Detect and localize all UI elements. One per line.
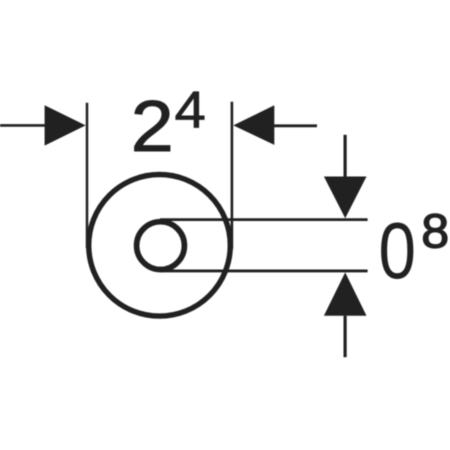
svg-text:4: 4	[175, 82, 206, 139]
svg-text:8: 8	[421, 204, 449, 258]
extension line bottom (diameter 0.8 dim)	[160, 269, 368, 272]
svg-text:0: 0	[379, 206, 416, 296]
dimension line left segment (24 dim)	[0, 124, 48, 127]
svg-text:2: 2	[131, 85, 174, 166]
arrowhead left pointing right (24 dim)	[45, 105, 86, 145]
outer circle (part outline)	[89, 175, 231, 317]
extension line top (diameter 0.8 dim)	[160, 218, 368, 221]
arrowhead bottom pointing up (0.8 dim)	[324, 272, 367, 315]
arrowhead top pointing down (0.8 dim)	[324, 177, 367, 219]
dimension line top segment (0.8 dim)	[344, 135, 347, 180]
extension line right (width 24 dim)	[231, 102, 234, 249]
extension line left (width 24 dim)	[86, 103, 89, 248]
inner circle (hole outline)	[137, 222, 185, 270]
dimension line right segment (24 dim)	[274, 124, 317, 127]
dimension line bottom segment (0.8 dim)	[344, 316, 347, 358]
arrowhead right pointing left (24 dim)	[233, 105, 274, 145]
